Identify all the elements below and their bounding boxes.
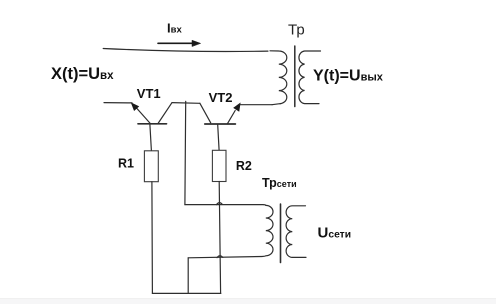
- bottom page strip: [0, 298, 496, 299]
- transformer T1 secondary winding: [299, 51, 321, 104]
- transistor VT1 emitter with arrow: [137, 108, 151, 124]
- svg-text:Iвх: Iвх: [167, 20, 182, 35]
- transformer T2 secondary winding: [286, 206, 306, 258]
- svg-text:Y(t)=Uвых: Y(t)=Uвых: [313, 67, 384, 84]
- junction hook at R2 wire and horizontal wire: [217, 203, 223, 205]
- svg-text:X(t)=Uвх: X(t)=Uвх: [51, 65, 114, 83]
- transistor VT1 base bar: [138, 123, 167, 125]
- transistor VT2 base bar: [205, 123, 236, 125]
- wire R2 down to bottom rail: [219, 182, 220, 294]
- svg-text:VT2: VT2: [209, 90, 233, 105]
- transformer T1 primary winding: [270, 51, 287, 105]
- svg-text:Uсети: Uсети: [318, 225, 352, 242]
- wire collector node horizontal: [172, 102, 200, 105]
- transistor VT2 base lead: [218, 125, 219, 151]
- junction hook at R2 wire and T2 bottom wire: [217, 256, 223, 258]
- transformer T2 core: [280, 204, 282, 263]
- wire bottom rail: [152, 292, 220, 294]
- wire R1 to bottom rail: [151, 182, 154, 294]
- transistor VT2 collector: [200, 103, 211, 123]
- wire center node to T2 primary top: [185, 204, 266, 207]
- wire box left vertical: [187, 258, 189, 294]
- transistor VT1 collector: [158, 103, 172, 124]
- wire VT2 emitter to T1 primary bottom: [240, 104, 272, 106]
- resistor R2: [212, 150, 226, 181]
- transformer T2 primary winding: [188, 205, 273, 257]
- wire top input line: [103, 49, 268, 52]
- transformer T1 core: [294, 46, 296, 107]
- svg-text:VT1: VT1: [137, 86, 161, 101]
- wire VT1 emitter input: [104, 102, 132, 104]
- svg-text:R2: R2: [236, 159, 252, 173]
- svg-text:Трсети: Трсети: [262, 176, 297, 190]
- resistor R1: [144, 151, 158, 182]
- wire center line down: [184, 101, 187, 204]
- svg-text:R1: R1: [118, 157, 134, 171]
- transistor VT2 emitter with arrow: [228, 111, 236, 124]
- transistor VT1 base lead: [150, 125, 152, 151]
- svg-text:Тр: Тр: [288, 22, 305, 39]
- current arrow Iвх: [158, 40, 201, 46]
